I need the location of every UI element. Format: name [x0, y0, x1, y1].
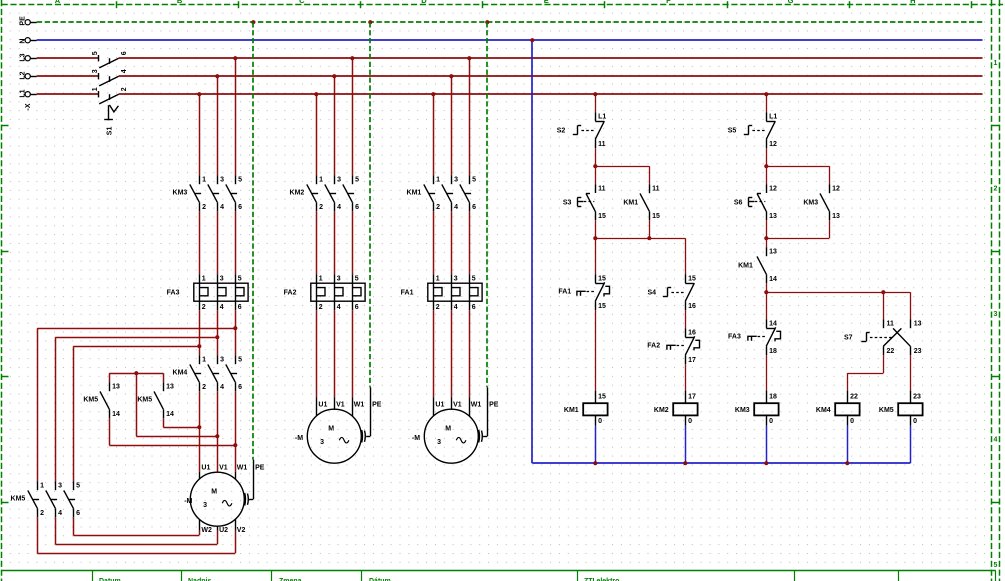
wire coil KM1 to N: [595, 426, 597, 463]
svg-text:2: 2: [319, 304, 323, 311]
svg-text:S4: S4: [647, 290, 656, 297]
svg-text:13: 13: [166, 384, 174, 391]
svg-text:17: 17: [688, 393, 696, 400]
wire L1 to KM1 pole 1: [433, 94, 435, 175]
wire coil KM5 to N: [910, 426, 912, 463]
svg-text:14: 14: [112, 411, 120, 418]
svg-text:S1: S1: [107, 127, 114, 136]
svg-text:2: 2: [436, 204, 440, 211]
svg-text:N: N: [20, 39, 27, 44]
svg-text:2: 2: [202, 384, 206, 391]
svg-text:4: 4: [337, 204, 341, 211]
junction PE x=487.3: [485, 20, 489, 24]
wire node1b to S6: [766, 166, 768, 184]
svg-text:1: 1: [319, 276, 323, 283]
svg-text:KM3: KM3: [735, 407, 750, 414]
svg-text:KM2: KM2: [654, 407, 669, 414]
contact FA1 15-15 (overload): [558, 274, 609, 310]
svg-text:3: 3: [203, 502, 207, 509]
junction node 2b: [764, 236, 768, 240]
svg-text:22: 22: [850, 393, 858, 400]
svg-text:L1: L1: [598, 114, 606, 121]
svg-text:V2: V2: [237, 527, 246, 534]
svg-text:PE: PE: [372, 402, 382, 409]
svg-text:V1: V1: [219, 465, 228, 472]
svg-text:5: 5: [238, 177, 242, 184]
svg-text:5: 5: [238, 357, 242, 364]
junction L2 x=217.3: [215, 74, 219, 78]
svg-text:FA3: FA3: [167, 290, 180, 297]
bus PE (protective earth): [37, 21, 983, 23]
wires FA2 to motor M2: [317, 310, 353, 416]
wire node1 branch to KM1 aux: [595, 166, 649, 184]
svg-text:U2: U2: [219, 527, 228, 534]
svg-text:W1: W1: [354, 402, 365, 409]
svg-text:V1: V1: [336, 402, 345, 409]
svg-text:L3: L3: [20, 53, 27, 61]
svg-text:3: 3: [994, 311, 998, 318]
button S2 (start): [557, 112, 607, 148]
wire tap V-phase to KM5 pole 2: [55, 337, 217, 481]
contactor KM2 main contacts 1-6: [290, 175, 360, 211]
junction node 3: [764, 290, 768, 294]
svg-text:-X: -X: [25, 103, 32, 110]
wire node2b to KM1 interlock: [766, 238, 768, 247]
wire L3 to KM3 pole 3: [235, 58, 237, 175]
junction tap W-phase: [233, 326, 237, 330]
svg-text:23: 23: [914, 348, 922, 355]
svg-text:3: 3: [454, 276, 458, 283]
svg-text:0: 0: [913, 418, 917, 425]
svg-text:6: 6: [355, 304, 359, 311]
wire node2 to FA1: [595, 238, 597, 274]
wire PE to motor M3: [486, 22, 489, 436]
svg-text:4: 4: [337, 304, 341, 311]
junction L1 x=766.3: [764, 92, 768, 96]
contact KM5 13-14 (right): [137, 382, 174, 418]
svg-text:0: 0: [688, 418, 692, 425]
svg-text:5: 5: [472, 177, 476, 184]
svg-text:KM5: KM5: [879, 407, 894, 414]
svg-text:15: 15: [652, 213, 660, 220]
svg-text:1: 1: [40, 483, 44, 490]
wires KM1 to FA1: [434, 211, 470, 274]
coil KM1: [564, 391, 608, 426]
svg-text:15: 15: [598, 213, 606, 220]
svg-text:1: 1: [994, 60, 998, 67]
svg-text:D: D: [421, 0, 427, 5]
svg-text:4: 4: [58, 510, 62, 517]
svg-text:3: 3: [337, 276, 341, 283]
wire KM5-aux left top pin: [109, 373, 111, 382]
svg-text:4: 4: [994, 436, 998, 443]
contactor KM3 main contacts 1-6: [173, 175, 243, 211]
wire FA1 to coil KM1: [595, 310, 597, 390]
junction PE x=253.3: [251, 20, 255, 24]
svg-text:2: 2: [436, 304, 440, 311]
svg-text:23: 23: [913, 393, 921, 400]
button S5 (start): [728, 112, 778, 148]
coil KM5: [879, 391, 923, 426]
svg-text:6: 6: [76, 510, 80, 517]
thermal overload relay FA2: [284, 274, 365, 311]
svg-text:KM1: KM1: [623, 199, 638, 206]
junction N return x=595.3: [593, 461, 597, 465]
wire tap W-phase to KM5 pole 1: [37, 328, 235, 481]
motor M1 bottom pins: [200, 519, 236, 530]
junction node 1b: [764, 164, 768, 168]
junction tap U-phase: [197, 344, 201, 348]
bus L2: [37, 75, 983, 77]
wire KM5 pole2 to motor U2: [55, 517, 217, 544]
svg-text:1: 1: [202, 357, 206, 364]
svg-text:5: 5: [76, 483, 80, 490]
svg-text:G: G: [788, 0, 794, 5]
contactor KM1 main contacts 1-6: [407, 175, 477, 211]
wire coil KM2 to N: [685, 426, 687, 463]
svg-text:15: 15: [688, 276, 696, 283]
svg-text:15: 15: [598, 276, 606, 283]
svg-text:S6: S6: [734, 199, 743, 206]
svg-text:4: 4: [454, 204, 458, 211]
svg-text:6: 6: [472, 204, 476, 211]
junction L1 x=433.3: [431, 92, 435, 96]
wires FA1 to motor M3: [434, 310, 470, 416]
svg-text:16: 16: [688, 330, 696, 337]
junction L3 x=352.3: [350, 56, 354, 60]
junction L3 x=235.3: [233, 56, 237, 60]
svg-text:6: 6: [238, 204, 242, 211]
svg-text:14: 14: [769, 321, 777, 328]
wire KM5-aux left to W1 column: [109, 418, 235, 445]
wire PE to motor M2: [369, 22, 372, 436]
wire S3 to node 2: [595, 220, 597, 238]
wire N to control return: [531, 40, 533, 463]
wire node1b branch to KM3 aux: [766, 166, 829, 184]
svg-text:5: 5: [238, 276, 242, 283]
wire node3 to S7 left: [883, 292, 885, 319]
svg-text:FA1: FA1: [401, 290, 414, 297]
svg-text:2: 2: [994, 185, 998, 192]
svg-text:H: H: [910, 0, 915, 5]
wire L2 to KM2 pole 2: [334, 76, 336, 175]
svg-text:3: 3: [320, 439, 324, 446]
wire L2 to KM3 pole 2: [217, 76, 219, 175]
wire S6 to node 2b: [766, 220, 768, 238]
svg-text:A: A: [55, 0, 61, 5]
junction L3 x=469.3: [467, 56, 471, 60]
terminal PE: [20, 16, 37, 26]
svg-text:1: 1: [436, 276, 440, 283]
title block: [2, 571, 996, 581]
svg-text:4: 4: [454, 304, 458, 311]
wires FA3 to KM4: [200, 310, 236, 355]
svg-text:M: M: [211, 488, 217, 495]
contact FA3 14-18 (overload): [728, 319, 780, 355]
wire L1 to KM3 pole 1: [199, 94, 201, 175]
wire bridge to V1 column: [136, 373, 217, 436]
svg-text:13: 13: [769, 213, 777, 220]
wire S2 to node 1: [595, 148, 597, 166]
coil KM4: [816, 391, 860, 426]
motor M1 (2-speed, 6 terminals): [184, 465, 265, 535]
svg-text:U1: U1: [435, 402, 444, 409]
wire node1 to S3: [595, 166, 597, 184]
svg-text:5: 5: [994, 562, 998, 569]
svg-text:1: 1: [436, 177, 440, 184]
wire L3 to KM1 pole 3: [469, 58, 471, 175]
terminal N: [20, 38, 37, 44]
button S7 (speed select, twin contacts): [844, 319, 922, 355]
motor M2: [295, 402, 382, 464]
svg-text:13: 13: [769, 249, 777, 256]
svg-text:2: 2: [202, 204, 206, 211]
terminal L3: [20, 53, 37, 61]
button S3 (stop): [563, 184, 606, 220]
coil KM3: [735, 391, 779, 426]
svg-text:-M: -M: [184, 498, 192, 505]
bus N return (bottom): [532, 462, 910, 464]
bus N (neutral): [37, 39, 983, 41]
wire KM5-aux right to U1 column: [163, 418, 199, 427]
bus L3: [37, 57, 983, 59]
wire KM5-aux bridge top: [109, 373, 163, 375]
wires KM2 to FA2: [317, 211, 353, 274]
wire L1 to control rung 3: [766, 94, 768, 112]
wire FA3 to coil KM3: [766, 355, 768, 390]
svg-text:3: 3: [220, 276, 224, 283]
svg-text:11: 11: [598, 186, 606, 193]
main switch S1 (3-pole disconnector): [92, 51, 128, 135]
contact KM3 12-13 (hold-in): [803, 184, 840, 220]
svg-text:2: 2: [121, 87, 128, 91]
svg-text:18: 18: [769, 393, 777, 400]
thermal overload relay FA1: [401, 274, 482, 311]
wire PE to motor M1: [252, 22, 255, 499]
svg-text:FA2: FA2: [284, 290, 297, 297]
junction N return x=847.3: [845, 461, 849, 465]
wires KM3 to FA3: [200, 211, 236, 274]
svg-text:KM4: KM4: [173, 370, 188, 377]
svg-text:KM1: KM1: [407, 190, 422, 197]
svg-text:S7: S7: [844, 335, 853, 342]
wire KM1 aux to node 2: [649, 220, 651, 238]
svg-text:5: 5: [355, 177, 359, 184]
svg-text:13: 13: [914, 321, 922, 328]
button S6 (stop): [734, 184, 777, 220]
svg-text:2: 2: [202, 304, 206, 311]
contact FA2 16-17 (overload): [647, 328, 699, 364]
junction node 2 (main): [593, 236, 597, 240]
svg-text:KM5: KM5: [11, 496, 26, 503]
wire node3 to FA3: [766, 292, 768, 319]
svg-text:11: 11: [652, 186, 660, 193]
svg-text:11: 11: [887, 321, 895, 328]
contact KM1 11-15 (hold-in): [623, 184, 660, 220]
svg-text:PE: PE: [255, 465, 265, 472]
wire KM5-aux right top pin: [163, 373, 165, 382]
svg-text:KM3: KM3: [173, 190, 188, 197]
svg-text:12: 12: [769, 141, 777, 148]
svg-text:U1: U1: [201, 465, 210, 472]
svg-text:KM5: KM5: [137, 397, 152, 404]
contact KM1 13-14: [738, 247, 777, 283]
svg-text:KM3: KM3: [803, 199, 818, 206]
svg-text:17: 17: [688, 357, 696, 364]
svg-text:13: 13: [112, 384, 120, 391]
svg-text:W2: W2: [201, 527, 212, 534]
svg-text:M: M: [445, 425, 451, 432]
junction L1 x=199.3: [197, 92, 201, 96]
contact KM5 13-14 (left): [83, 382, 120, 418]
svg-text:PE: PE: [489, 402, 499, 409]
svg-text:5: 5: [355, 276, 359, 283]
contactor KM5 main contacts 1-6: [11, 481, 81, 517]
svg-text:0: 0: [850, 418, 854, 425]
junction N return x=685.3: [683, 461, 687, 465]
coil KM2: [654, 391, 698, 426]
svg-text:3: 3: [454, 177, 458, 184]
svg-text:6: 6: [472, 304, 476, 311]
svg-text:KM1: KM1: [738, 262, 753, 269]
terminal L1: [20, 89, 37, 97]
junction V1 column: [215, 434, 219, 438]
wire KM3 aux to node 2b: [766, 220, 829, 238]
svg-text:-M: -M: [412, 435, 420, 442]
wire S5 to node 1b: [766, 148, 768, 166]
svg-text:M: M: [328, 425, 334, 432]
svg-text:C: C: [299, 0, 305, 5]
svg-text:3: 3: [220, 177, 224, 184]
svg-text:FA1: FA1: [558, 289, 571, 296]
svg-text:0: 0: [769, 418, 773, 425]
terminal L2: [20, 71, 37, 79]
svg-text:14: 14: [166, 411, 174, 418]
thermal overload relay FA3: [167, 274, 248, 311]
svg-text:KM5: KM5: [83, 397, 98, 404]
svg-text:KM4: KM4: [816, 407, 831, 414]
svg-text:S3: S3: [563, 199, 572, 206]
svg-text:3: 3: [337, 177, 341, 184]
svg-text:22: 22: [887, 348, 895, 355]
svg-text:15: 15: [598, 393, 606, 400]
svg-text:W1: W1: [471, 402, 482, 409]
svg-text:5: 5: [472, 276, 476, 283]
wire node 2: [595, 238, 685, 274]
svg-text:W1: W1: [237, 465, 248, 472]
wire coil KM4 to N: [847, 426, 849, 463]
svg-text:16: 16: [688, 303, 696, 310]
wire L1 to control rung 1: [595, 94, 597, 112]
svg-text:L1: L1: [769, 114, 777, 121]
motor M3: [412, 402, 499, 464]
junction node 1: [593, 164, 597, 168]
svg-text:B: B: [177, 0, 183, 5]
svg-text:FA3: FA3: [728, 334, 741, 341]
svg-text:S5: S5: [728, 128, 737, 135]
junction bridge / V-phase tap: [134, 371, 138, 375]
svg-text:1: 1: [202, 276, 206, 283]
junction N return x=766.3: [764, 461, 768, 465]
wire L2 to KM1 pole 2: [451, 76, 453, 175]
svg-text:KM1: KM1: [564, 407, 579, 414]
svg-text:KM2: KM2: [290, 190, 305, 197]
junction L1 x=316.3: [314, 92, 318, 96]
svg-text:18: 18: [769, 348, 777, 355]
svg-text:2: 2: [319, 204, 323, 211]
junction U1 column: [197, 425, 201, 429]
wire KM5 pole1 to motor V2: [37, 517, 235, 553]
svg-text:14: 14: [769, 276, 777, 283]
svg-text:2: 2: [40, 510, 44, 517]
svg-text:11: 11: [598, 141, 606, 148]
svg-text:6: 6: [121, 51, 128, 55]
svg-text:4: 4: [220, 304, 224, 311]
svg-text:L1: L1: [20, 89, 27, 97]
svg-text:3: 3: [220, 357, 224, 364]
svg-text:V1: V1: [453, 402, 462, 409]
junction L1 x=595.3: [593, 92, 597, 96]
svg-text:12: 12: [832, 186, 840, 193]
svg-text:12: 12: [769, 186, 777, 193]
svg-text:15: 15: [598, 303, 606, 310]
svg-text:U1: U1: [318, 402, 327, 409]
junction W1 column: [233, 443, 237, 447]
wire L3 to KM2 pole 3: [352, 58, 354, 175]
svg-text:3: 3: [58, 483, 62, 490]
junction L2 x=334.3: [332, 74, 336, 78]
svg-text:13: 13: [832, 213, 840, 220]
svg-text:6: 6: [238, 304, 242, 311]
svg-text:PE: PE: [20, 16, 27, 26]
junction N / control return: [530, 38, 534, 42]
svg-text:5: 5: [92, 51, 99, 55]
junction PE x=370.3: [368, 20, 372, 24]
junction tap V-phase: [215, 335, 219, 339]
svg-text:-M: -M: [295, 435, 303, 442]
svg-text:4: 4: [220, 384, 224, 391]
svg-text:4: 4: [121, 69, 128, 73]
junction node 2 (aux): [647, 236, 651, 240]
svg-text:1: 1: [319, 177, 323, 184]
svg-text:FA2: FA2: [647, 343, 660, 350]
svg-text:0: 0: [598, 418, 602, 425]
svg-text:4: 4: [220, 204, 224, 211]
wire tap U-phase to KM5 pole 3: [73, 346, 199, 481]
bus L1: [37, 93, 983, 95]
junction L2 x=451.3: [449, 74, 453, 78]
svg-text:E: E: [544, 0, 549, 5]
junction node 3 / S7 left: [881, 290, 885, 294]
wire coil KM3 to N: [766, 426, 768, 463]
wire node 3 to S7 branch: [766, 292, 910, 319]
svg-text:L2: L2: [20, 71, 27, 79]
terminal strip label -X: [25, 103, 32, 110]
svg-text:F: F: [666, 0, 671, 5]
svg-text:1: 1: [92, 87, 99, 91]
wire L1 to KM2 pole 1: [316, 94, 318, 175]
svg-text:6: 6: [238, 384, 242, 391]
wire KM5 pole3 to motor W2: [73, 517, 199, 535]
svg-text:1: 1: [202, 177, 206, 184]
wire S4 to FA2: [685, 310, 687, 328]
wire S7-23 to coil KM5: [910, 355, 912, 390]
contactor KM4 main contacts 1-6: [173, 355, 243, 391]
svg-text:6: 6: [355, 204, 359, 211]
svg-text:S2: S2: [557, 128, 566, 135]
wire FA2 to coil KM2: [685, 364, 687, 390]
svg-text:3: 3: [92, 69, 99, 73]
